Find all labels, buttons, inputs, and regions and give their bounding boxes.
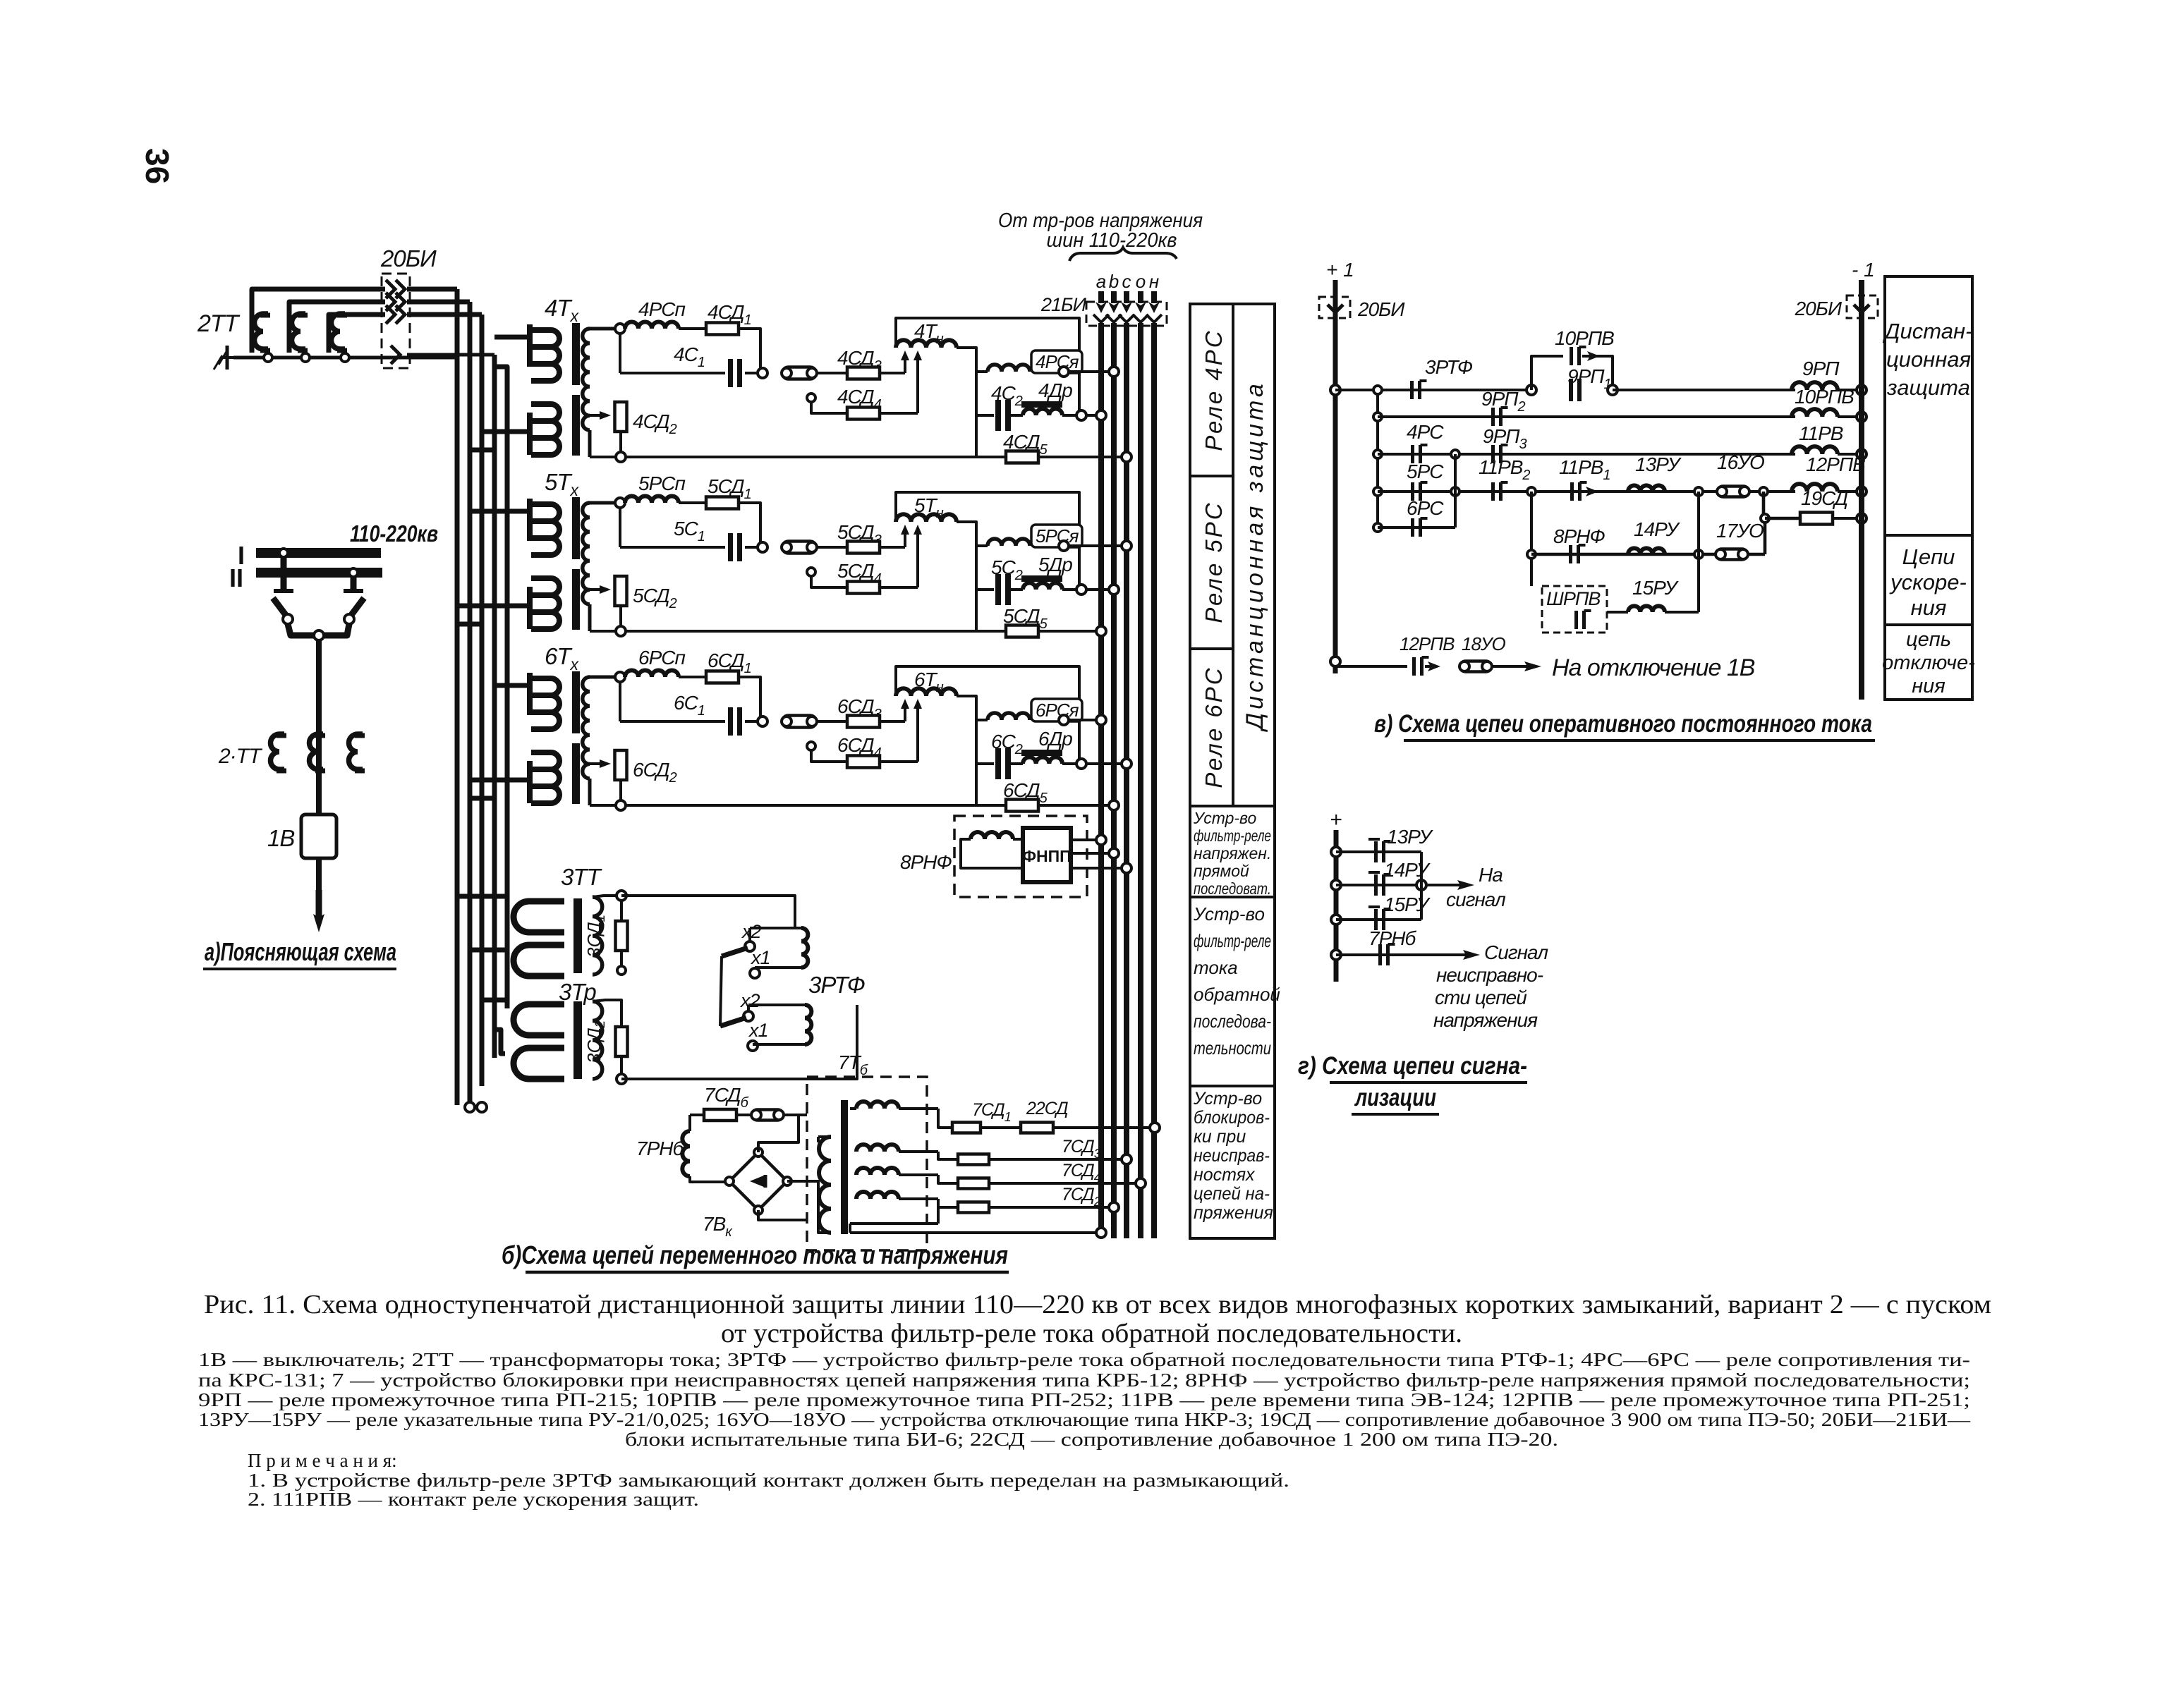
node 5РСп left: [615, 498, 625, 508]
switch blade right: [349, 598, 364, 618]
svg-text:1. В устройстве фильтр-реле: 1. В устройстве фильтр-реле ЗРТФ замыкаю…: [248, 1470, 1289, 1491]
svg-text:2ТТ: 2ТТ: [197, 310, 241, 337]
svg-text:o: o: [1136, 271, 1146, 292]
wire 2TT common return: [233, 356, 457, 360]
wire 3Тр secondary to 3РТФ lower: [621, 1005, 857, 1079]
transformer 3Тр core: [573, 1001, 582, 1079]
svg-text:1В: 1В: [267, 825, 294, 851]
test link fuse group 6: [782, 716, 816, 728]
node 6РСп left: [615, 672, 625, 682]
node parallel block left: [1526, 385, 1536, 395]
wire ФНПП output 2 to bus b: [1071, 852, 1114, 855]
current transformer 2-TT a: [270, 734, 284, 769]
wire stubs bundle to 4Tx primary: [494, 335, 530, 340]
rung 1 wire: [1335, 389, 1531, 391]
filter ФНПП box: [1023, 828, 1071, 882]
fuse link small: [752, 1110, 783, 1121]
svg-text:20БИ: 20БИ: [1357, 298, 1405, 320]
wire secondary top to node: [590, 501, 616, 505]
wire inner rect left side: [975, 546, 978, 631]
rung 4 5РС 11РВ2 11РВ1 13РУ 16УО 12РПВ: [1373, 487, 1382, 496]
svg-text:- 1: - 1: [1852, 259, 1875, 281]
label box 4РСя: [1031, 350, 1082, 373]
wire left branch to 4С1: [619, 334, 621, 373]
svg-text:14РУ: 14РУ: [1384, 859, 1431, 881]
svg-text:a: a: [1096, 271, 1106, 292]
svg-text:от устройства фильтр-реле т: от устройства фильтр-реле тока обратной …: [721, 1319, 1462, 1348]
svg-text:последоват.: последоват.: [1194, 879, 1271, 898]
svg-text:Цепи: Цепи: [1902, 544, 1955, 569]
transformer 7Тб primary winding: [819, 1137, 831, 1233]
wire 2TT phase B to 20BI: [289, 302, 385, 353]
svg-text:фильтр-реле: фильтр-реле: [1194, 930, 1271, 951]
wire arrows into 6Тн: [904, 704, 906, 721]
current transformer 2-TT b: [309, 734, 323, 769]
svg-text:6РСя: 6РСя: [1036, 700, 1079, 721]
test block 20БИ right: [1847, 295, 1878, 318]
svg-text:шин 110-220кв: шин 110-220кв: [1047, 229, 1177, 252]
label box 5РСя: [1031, 525, 1082, 547]
wire 5Тн upper loop: [896, 492, 1079, 585]
wire RSya row to bus: [976, 719, 988, 721]
svg-text:20БИ: 20БИ: [380, 245, 437, 272]
svg-text:9РП — реле промежуточное тип: 9РП — реле промежуточное типа РП-215; 10…: [198, 1389, 1970, 1410]
svg-text:6Др: 6Др: [1038, 728, 1072, 750]
dashed box ШРПВ: [1542, 586, 1607, 633]
transformer 4Тх primary lower winding: [527, 413, 533, 455]
test block 20БИ left: [1319, 297, 1350, 318]
wire switches converge: [288, 624, 349, 635]
arrow na signal: [1426, 884, 1463, 886]
svg-text:12РПВ: 12РПВ: [1400, 633, 1455, 654]
svg-text:16УО: 16УО: [1717, 451, 1764, 473]
wire stubs bundle to 6Tx primary: [494, 683, 530, 688]
feeder arrow down: [316, 890, 322, 918]
test link fuse group 5: [782, 542, 816, 554]
transformer 6Тх secondary winding: [583, 677, 590, 779]
node main rung: [1330, 385, 1340, 395]
transformer 5Тх secondary winding: [583, 503, 590, 604]
voltage bus vertical lines a b c o n: [1098, 323, 1104, 1238]
rung 14РУ signal: [1331, 880, 1341, 890]
tap arrow to 6СД2: [590, 762, 601, 765]
svg-text:цепь: цепь: [1906, 628, 1951, 651]
svg-text:13РУ: 13РУ: [1635, 453, 1682, 475]
current transformer 2-TT c: [348, 734, 363, 769]
bus down arrows into 21BI: [1098, 291, 1104, 303]
svg-text:7РНб: 7РНб: [1368, 927, 1416, 949]
table dividers horizontal: [1190, 475, 1233, 477]
wire 6Тн right to RSya: [957, 696, 976, 720]
rung 15РУ: [1607, 611, 1628, 614]
wire stubs bundle to 5Tx primary: [470, 509, 530, 514]
wire taps upper: [748, 928, 751, 941]
test block 20BI chevrons: [386, 280, 395, 298]
svg-text:Устр-во: Устр-во: [1193, 903, 1265, 925]
wire bottom return row group 5: [588, 604, 592, 631]
svg-text:тельности: тельности: [1194, 1037, 1271, 1059]
svg-text:лизации: лизации: [1354, 1084, 1436, 1111]
inductor 6РСя: [988, 713, 1030, 720]
svg-text:н: н: [1149, 271, 1159, 292]
current transformer 2TT phase A: [255, 314, 269, 349]
svg-text:а)Поясняющая схема: а)Поясняющая схема: [205, 937, 396, 966]
svg-text:Сигнал: Сигнал: [1484, 941, 1548, 963]
wire secondary top to node: [590, 676, 616, 679]
svg-text:15РУ: 15РУ: [1384, 893, 1431, 915]
vertical 2408: [1697, 492, 1700, 612]
rectifier bridge 7Вк: [729, 1152, 787, 1210]
rung 2 9РП2 10РПВ: [1373, 413, 1382, 421]
svg-text:прямой: прямой: [1194, 862, 1249, 880]
wires 7Тб secondary to resistor rows: [850, 1107, 856, 1110]
current transformer 2TT phase C: [331, 314, 345, 349]
wire inner rect left side: [975, 372, 978, 457]
svg-text:П р и м е ч а н и я:: П р и м е ч а н и я:: [248, 1450, 397, 1471]
transformer 6Тх primary lower winding: [527, 761, 533, 803]
transformer 5Тх primary lower winding: [527, 587, 533, 629]
svg-text:ционная: ционная: [1886, 347, 1971, 372]
svg-text:блокиров-: блокиров-: [1194, 1108, 1270, 1128]
current transformer 2TT phase B: [291, 314, 305, 349]
svg-text:х1: х1: [748, 1020, 768, 1041]
node 5РСя right: [1059, 541, 1069, 551]
svg-text:3ТТ: 3ТТ: [561, 864, 603, 890]
svg-text:3РТФ: 3РТФ: [808, 972, 865, 998]
svg-text:3РТФ: 3РТФ: [1425, 356, 1473, 378]
test link fuse group 4: [782, 367, 816, 379]
node 6РСя right: [1059, 715, 1069, 725]
arrow signal neispravnosti: [1453, 953, 1469, 956]
wire 7СДб row: [690, 1114, 704, 1116]
svg-text:21БИ: 21БИ: [1040, 294, 1087, 315]
transformer 4Тх core: [572, 323, 580, 385]
contact hook 6СД4: [807, 742, 815, 750]
rung 6РС closing bank: [1373, 523, 1382, 532]
svg-text:36: 36: [139, 148, 176, 184]
tap arrow to 5СД2: [590, 588, 601, 591]
node junction top loop and Dr row: [1076, 410, 1086, 420]
node junction top loop and Dr row: [1076, 759, 1086, 769]
svg-text:неисправ-: неисправ-: [1194, 1146, 1270, 1166]
contact hook 5СД4: [807, 568, 815, 576]
svg-text:5РСп: 5РСп: [638, 472, 685, 494]
svg-text:6РС: 6РС: [1407, 497, 1444, 519]
bus bar II: [256, 568, 382, 578]
svg-text:ФНПП: ФНПП: [1022, 847, 1071, 865]
transformer 3ТТ core: [573, 898, 582, 973]
svg-text:+: +: [1330, 808, 1342, 831]
transformer 3ТТ secondary: [593, 897, 602, 975]
wire bundle vertical lines: [455, 289, 460, 1105]
svg-text:14РУ: 14РУ: [1634, 518, 1681, 540]
test block 21BI dashed box: [1086, 302, 1167, 326]
wire inner rect left side: [975, 720, 978, 805]
wire secondary top to node: [590, 327, 616, 331]
transformer 4Тх secondary winding: [583, 329, 590, 430]
breaker 1B box: [301, 815, 336, 858]
signal rail vertical: [1334, 830, 1339, 982]
bottom rung 12РПВ 18УО na otklyuchenie: [1330, 657, 1340, 666]
transformer 3РТФ lower secondary coil: [805, 1005, 811, 1044]
svg-text:блоки испытательные типа БИ: блоки испытательные типа БИ-6; 22СД — со…: [625, 1429, 1558, 1450]
rung 19СД: [1762, 492, 1766, 518]
svg-text:12РПВ: 12РПВ: [1806, 453, 1865, 475]
svg-text:ния: ния: [1912, 675, 1946, 697]
wire left branch to 5С1: [619, 508, 621, 547]
svg-text:II: II: [229, 563, 243, 592]
svg-text:18УО: 18УО: [1462, 633, 1506, 654]
wire 3ТТ secondary to 3РТФ upper: [621, 896, 795, 928]
svg-text:ускоре-: ускоре-: [1889, 570, 1967, 594]
svg-text:+ 1: + 1: [1326, 259, 1354, 281]
node 4РСп left: [615, 324, 625, 334]
brace under voltage label: [1069, 248, 1177, 261]
svg-text:последова-: последова-: [1194, 1011, 1271, 1032]
svg-text:2. 111РПВ — контакт реле ус: 2. 111РПВ — контакт реле ускорения защит…: [248, 1489, 699, 1510]
rung 7РНб signal: [1331, 950, 1341, 960]
inductor 5РСя: [988, 539, 1030, 546]
transformer 7Тб core: [841, 1100, 848, 1234]
svg-text:отключе-: отключе-: [1882, 652, 1975, 674]
svg-text:110-220кв: 110-220кв: [350, 520, 438, 547]
feeder line: [316, 640, 322, 815]
wire 5Тн right to RSya: [957, 522, 976, 546]
transformer 3Тр primary loops: [514, 1004, 564, 1035]
wire ФНПП output 3 to bus c: [1071, 867, 1127, 870]
wire bottom return row group 4: [588, 430, 592, 457]
svg-text:17УО: 17УО: [1716, 520, 1764, 542]
wire 7РНб to bridge: [690, 1176, 731, 1182]
table divider vertical: [1232, 304, 1234, 806]
tap arrow to 4СД2: [590, 414, 601, 417]
wire 2TT phase C to 20BI: [329, 315, 385, 353]
svg-text:ШРПВ: ШРПВ: [1546, 588, 1601, 609]
svg-text:c: c: [1122, 271, 1131, 292]
svg-text:Дистанционная защита: Дистанционная защита: [1242, 380, 1268, 733]
node junction top loop and Dr row: [1076, 585, 1086, 594]
svg-text:ностях: ностях: [1194, 1165, 1256, 1185]
svg-text:5РС: 5РС: [1407, 460, 1444, 482]
disconnector from bus II: [349, 568, 358, 577]
svg-text:2·ТТ: 2·ТТ: [218, 745, 263, 768]
transformer 7Тб secondary windings: [856, 1102, 899, 1109]
wire RSya row to bus: [976, 544, 988, 547]
node 4РСя right: [1059, 367, 1069, 377]
rung 8РНФ 14РУ 17УО: [1531, 553, 1765, 556]
svg-text:Устр-во: Устр-во: [1193, 1089, 1262, 1109]
switch blade left: [273, 598, 288, 618]
bus bar I: [256, 548, 381, 558]
wire slanted links 3РТФ: [720, 956, 722, 1026]
inductor 8РНФ input coil: [971, 832, 1013, 839]
wire 4Тн right to RSya: [957, 348, 976, 372]
device 8РНФ dashed box: [954, 816, 1087, 897]
table v) right: [1885, 276, 1972, 700]
right vertical signal bank: [1420, 852, 1423, 920]
wire 4Тн upper loop: [896, 318, 1079, 411]
wire arrows into 4Тн: [904, 356, 906, 373]
wire 4СД1 to corner: [739, 329, 760, 373]
wire 7Тб bottom row: [937, 1207, 940, 1224]
wire bridge bottom: [758, 1210, 807, 1220]
svg-text:Дистан-: Дистан-: [1883, 319, 1973, 343]
svg-text:13РУ: 13РУ: [1387, 826, 1434, 848]
svg-text:20БИ: 20БИ: [1795, 298, 1843, 319]
transformer 6Тх core: [572, 671, 580, 733]
positive rail vertical: [1333, 280, 1338, 673]
svg-text:Реле 4РС: Реле 4РС: [1201, 329, 1227, 451]
wire bridge right to 7Тб primary: [787, 1181, 831, 1233]
svg-text:цепей на-: цепей на-: [1194, 1184, 1270, 1204]
svg-text:Устр-во: Устр-во: [1193, 809, 1257, 827]
transformer 3Тр secondary: [593, 1001, 602, 1079]
node 6С1 right: [758, 716, 767, 726]
svg-text:4Др: 4Др: [1038, 379, 1072, 401]
wire RSya row to bus: [976, 370, 988, 373]
svg-text:19СД: 19СД: [1801, 487, 1847, 509]
svg-text:11РВ: 11РВ: [1799, 422, 1843, 444]
node parallel block right: [1608, 385, 1617, 395]
wire 6СД1 to corner: [739, 677, 760, 721]
rung 15РУ signal: [1331, 915, 1341, 925]
label box 6РСя: [1031, 699, 1082, 721]
svg-text:тока: тока: [1194, 957, 1238, 978]
inductor 4РСя: [988, 365, 1030, 372]
svg-text:х1: х1: [750, 947, 770, 968]
wire bridge top to 7СДб fuse: [758, 1115, 799, 1152]
svg-text:4РСп: 4РСп: [638, 298, 685, 320]
transformer 3ТТ primary loops: [514, 901, 564, 932]
svg-text:сти цепей: сти цепей: [1435, 987, 1527, 1008]
svg-text:7РНб: 7РНб: [636, 1137, 684, 1159]
svg-text:неисправно-: неисправно-: [1436, 964, 1543, 986]
wire rung1 to coil 9РП: [1613, 389, 1795, 391]
transformer 3РТФ upper secondary coil: [801, 928, 808, 968]
wire stubs bundle to 3TT primary: [457, 894, 505, 899]
svg-text:напряжен.: напряжен.: [1194, 844, 1271, 862]
disconnector from bus I: [279, 549, 288, 557]
test block 20BI dashed box: [382, 274, 410, 368]
parallel block 10РПВ top branch: [1531, 356, 1563, 390]
node 4С1 right: [758, 368, 767, 378]
wire ФНПП output 1 to bus a: [1071, 838, 1101, 841]
svg-text:г) Схема цепеи сигна-: г) Схема цепеи сигна-: [1298, 1052, 1527, 1080]
svg-text:ки при: ки при: [1194, 1127, 1246, 1147]
svg-text:пряжения: пряжения: [1194, 1203, 1273, 1223]
wire bundle from 20BI turning down: [407, 287, 457, 292]
wire bottom return row group 6: [588, 779, 592, 805]
svg-text:3Тр: 3Тр: [559, 979, 596, 1005]
rung 13РУ signal: [1331, 847, 1341, 857]
svg-text:защита: защита: [1886, 375, 1970, 400]
transformer 4Тх primary upper winding: [527, 324, 533, 367]
svg-text:па КРС-131; 7 — устройство: па КРС-131; 7 — устройство блокировки пр…: [198, 1370, 1970, 1391]
svg-text:фильтр-реле: фильтр-реле: [1194, 826, 1271, 845]
wire taps lower: [747, 1005, 750, 1011]
svg-text:9РП: 9РП: [1802, 358, 1840, 379]
svg-text:15РУ: 15РУ: [1632, 577, 1680, 599]
svg-text:На: На: [1479, 864, 1503, 886]
svg-text:13РУ—15РУ — реле указательные: 13РУ—15РУ — реле указательные типа РУ-21…: [198, 1409, 1971, 1430]
wire 5СД1 to corner: [739, 503, 760, 547]
wire 6Тн upper loop: [896, 666, 1079, 760]
svg-text:Реле 6РС: Реле 6РС: [1201, 666, 1227, 788]
svg-text:На отключение 1В: На отключение 1В: [1552, 654, 1755, 681]
svg-text:22СД: 22СД: [1026, 1099, 1068, 1118]
transformer 5Тх primary upper winding: [527, 499, 533, 541]
svg-text:обратной: обратной: [1194, 984, 1280, 1005]
transformer 6Тх primary upper winding: [527, 673, 533, 715]
transformer 7Тб dashed box: [807, 1077, 927, 1250]
svg-text:ния: ния: [1911, 595, 1947, 620]
svg-text:напряжения: напряжения: [1433, 1009, 1538, 1031]
svg-text:5Др: 5Др: [1038, 554, 1072, 575]
line to feeder arrow: [316, 858, 322, 890]
svg-text:4РС: 4РС: [1407, 421, 1444, 443]
svg-text:5РСя: 5РСя: [1036, 525, 1079, 547]
svg-text:4РСя: 4РСя: [1036, 351, 1079, 372]
vertical 2171 down: [1530, 492, 1533, 586]
svg-text:Реле 5РС: Реле 5РС: [1201, 501, 1227, 623]
svg-text:б)Схема цепей переменного: б)Схема цепей переменного тока и напряже…: [502, 1240, 1008, 1269]
table functional zones outer box: [1190, 304, 1275, 1238]
svg-text:b: b: [1109, 271, 1119, 292]
svg-text:в) Схема цепеи оперативного: в) Схема цепеи оперативного постоянного …: [1374, 710, 1872, 738]
svg-text:8РНФ: 8РНФ: [900, 851, 952, 873]
wire bundle extra elbows texture: [470, 450, 494, 465]
svg-text:сигнал: сигнал: [1446, 889, 1506, 910]
transformer 5Тх core: [572, 497, 580, 559]
wire fifth bundle vertical: [494, 367, 507, 1008]
rung 3 4РС 9РП3 11РВ: [1373, 450, 1382, 458]
svg-text:Рис. 11. Схема одноступенча: Рис. 11. Схема одноступенчатой дистанцио…: [204, 1290, 1991, 1319]
svg-text:1В — выключатель; 2ТТ — транс: 1В — выключатель; 2ТТ — трансформаторы т…: [198, 1349, 1970, 1370]
svg-text:6РСп: 6РСп: [638, 647, 685, 669]
wire left branch to 6С1: [619, 682, 621, 721]
wire 2TT phase A to 20BI: [252, 289, 385, 353]
wire 8РНФ coil loop: [961, 839, 1023, 868]
contact hook 4СД4: [807, 394, 815, 402]
left bank vertical: [1376, 390, 1379, 527]
node 5С1 right: [758, 542, 767, 552]
node 3ТТ secondary top: [593, 896, 618, 897]
svg-text:10РПВ: 10РПВ: [1795, 386, 1854, 408]
ground: [226, 346, 229, 370]
wire arrows into 5Тн: [904, 530, 906, 547]
